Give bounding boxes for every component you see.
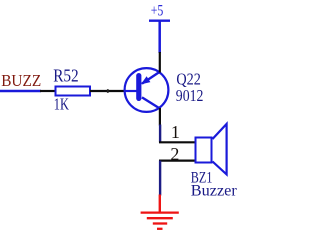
power +5 [149,3,170,53]
transistor Q22 [124,68,168,112]
wire (blue net stub under BUZZ) [0,90,41,92]
wire (navy segment pin2 down) [159,161,161,196]
wire (pin 1 horizontal) [159,141,195,143]
base bar [136,76,141,99]
svg-text:+5: +5 [151,3,164,20]
collector lead [142,97,160,108]
ground bar 2 [147,217,173,219]
wire junction nub [107,89,109,93]
wire (BUZZ to resistor) [40,90,56,92]
power bar [149,20,170,22]
ground bar 3 [153,222,167,224]
wire (navy segment to pin1 corner) [159,125,161,143]
svg-text:R52: R52 [53,65,78,85]
ground [141,213,179,229]
svg-text:1: 1 [171,122,180,142]
ground bar 1 [141,211,179,213]
wire (resistor to base) [90,90,125,92]
wire (collector down) [159,108,161,126]
transistor circle [125,68,169,112]
wire (red segment to ground) [159,195,161,213]
buzzer BZ1 [196,124,227,174]
resistor R52 [56,87,91,96]
svg-text:1K: 1K [54,94,70,113]
buzzer horn [213,124,227,174]
emitter lead [142,72,160,84]
svg-text:Buzzer: Buzzer [191,183,238,200]
wire (power to emitter) [159,52,161,73]
buzzer body rect [196,138,212,163]
base lead [124,90,137,92]
power pin [158,21,161,53]
svg-text:9012: 9012 [176,86,204,105]
emitter arrow (PNP, points toward base) [141,76,151,84]
ground bar 4 [157,228,163,230]
svg-text:BUZZ: BUZZ [1,71,41,90]
wire (pin 2 horizontal) [159,160,195,162]
